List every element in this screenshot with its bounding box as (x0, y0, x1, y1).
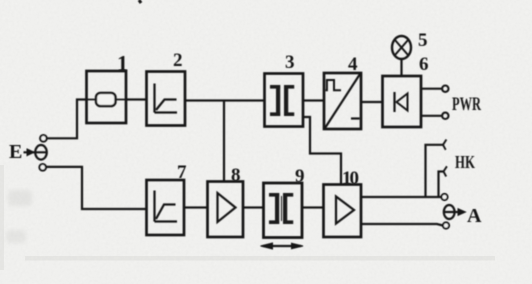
wire E bottom to block 7 (46, 167, 146, 209)
svg-text:A: A (467, 205, 482, 227)
svg-text:7: 7 (177, 162, 187, 183)
svg-text:4: 4 (348, 54, 358, 75)
block 1 internal stubs (87, 99, 126, 101)
block 7 box (147, 180, 185, 235)
wire block2 to block3 with junction (185, 99, 264, 101)
svg-text:6: 6 (419, 54, 429, 75)
block 8 box (208, 182, 244, 238)
svg-text:9: 9 (295, 166, 305, 187)
block 8 amp triangle (218, 193, 236, 222)
wire block8 to block9 (243, 206, 264, 208)
node E lower terminal (39, 164, 46, 171)
wire block4 to block6 (361, 101, 382, 103)
wire block7 to block8 (184, 206, 207, 208)
svg-text:HK: HK (455, 152, 475, 172)
block 10 box (324, 185, 362, 238)
svg-text:10: 10 (342, 168, 359, 189)
ghost bleed-through blobs (6, 190, 32, 243)
node A upper terminal (441, 194, 447, 200)
block 1 box (87, 71, 127, 123)
node PWR upper terminal (442, 86, 448, 92)
scan smudge left edge (0, 165, 4, 270)
node E jack circle (35, 145, 47, 160)
wire block10 top output to node A (361, 196, 441, 198)
switch HK lower contact (439, 166, 447, 197)
wire junction down to block 8 (223, 101, 225, 182)
svg-text:1: 1 (117, 51, 128, 76)
wire block3 lower output to block 10 (303, 117, 341, 185)
node E upper terminal (40, 135, 47, 142)
block 9 box (264, 183, 303, 238)
block 1 capsule (96, 93, 116, 106)
svg-text:3: 3 (285, 52, 295, 73)
block 3 transformer windings (270, 85, 294, 116)
wire lamp to block6 (400, 59, 402, 76)
block 3 box (265, 74, 304, 127)
block 4 minus sign (351, 117, 360, 119)
wire block1 to block2 (126, 98, 146, 100)
block 6 box (383, 76, 422, 127)
wire block3 to block4 (303, 99, 324, 101)
block 4 box (324, 73, 361, 129)
block 2 box (147, 72, 186, 126)
svg-text:PWR: PWR (452, 94, 481, 115)
node PWR lower terminal (442, 113, 448, 119)
stray mark top (139, 0, 141, 3)
block 2 limiter curve (155, 84, 178, 113)
block 9 transformer windings (269, 193, 293, 224)
wire block6 lower output (421, 115, 442, 117)
svg-text:2: 2 (173, 50, 183, 71)
switch HK upper contact (426, 140, 447, 198)
svg-text:5: 5 (418, 30, 428, 51)
block 9 core line (281, 196, 283, 221)
block 9 variable arrow (261, 243, 304, 249)
wire block10 bottom output to node A (361, 224, 443, 226)
wire E top to block 1 (47, 100, 86, 139)
node A jack circle (444, 205, 455, 219)
block 4 pulse symbol (326, 80, 342, 90)
block 4 diagonal (325, 74, 360, 128)
wire block6 upper output (421, 88, 442, 90)
block 10 amp triangle (336, 197, 354, 224)
svg-text:8: 8 (231, 165, 241, 186)
svg-text:E: E (9, 141, 22, 163)
scan smudge bottom (25, 256, 495, 261)
node A output arrow (444, 209, 466, 216)
lamp 5 (392, 36, 411, 59)
node E input arrow (24, 149, 47, 156)
block 6 diode (395, 92, 408, 112)
block 7 limiter curve (155, 191, 178, 222)
wire block9 to block10 (302, 206, 323, 208)
node A lower terminal (443, 222, 449, 228)
